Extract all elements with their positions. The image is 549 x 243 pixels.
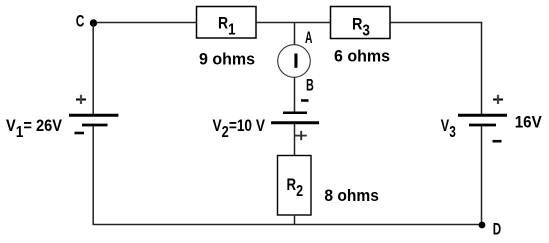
plus sign V1 [76, 95, 86, 104]
minus sign V3 [493, 140, 502, 143]
wire C to R1 [96, 22, 196, 24]
node D [479, 220, 502, 239]
svg-text:V1= 26V: V1= 26V [6, 116, 63, 141]
svg-text:16V: 16V [515, 113, 543, 132]
svg-text:D: D [493, 220, 501, 239]
resistor R1 [197, 7, 257, 39]
wire R2 to bottom wire [294, 215, 296, 225]
battery V1 negative plate (short bar) [82, 124, 108, 127]
bottom wire [93, 224, 483, 226]
svg-text:6 ohms: 6 ohms [334, 47, 390, 66]
svg-text:V3: V3 [441, 116, 456, 141]
node C [76, 12, 97, 31]
ammeter I (current source circle) [278, 45, 311, 78]
battery V3 negative plate (short bar) [469, 124, 496, 127]
svg-text:B: B [306, 76, 314, 95]
wire junction to ammeter [294, 22, 296, 46]
resistor R3 [331, 7, 391, 40]
resistor R2 [278, 156, 312, 216]
svg-text:9 ohms: 9 ohms [199, 50, 255, 69]
minus sign V2 [301, 99, 309, 102]
wire ammeter to V2 [294, 77, 296, 112]
svg-text:C: C [76, 12, 85, 31]
battery V2 positive plate (long bar) [271, 121, 319, 124]
wire junction to R3 [295, 22, 330, 24]
wire right vertical lower (V3 to node D) [481, 126, 483, 225]
wire left vertical upper (C to V1) [92, 23, 94, 114]
battery V3 positive plate (long bar) [458, 114, 507, 117]
svg-text:V2=10 V: V2=10 V [213, 116, 266, 141]
battery V2 negative plate (short bar) [283, 111, 307, 114]
svg-text:A: A [305, 28, 312, 47]
wire R1 to node junction [256, 22, 295, 24]
wire right vertical upper (corner to V3) [481, 22, 483, 114]
minus sign V1 [75, 132, 85, 135]
svg-text:8 ohms: 8 ohms [324, 186, 379, 205]
wire left vertical lower (V1 to bottom wire) [92, 126, 94, 225]
plus sign V2 [295, 131, 307, 140]
plus sign V3 [493, 95, 503, 104]
wire R3 to top-right corner [390, 22, 482, 24]
battery V1 positive plate (long bar) [69, 114, 118, 117]
wire V2 to R2 [294, 124, 296, 155]
